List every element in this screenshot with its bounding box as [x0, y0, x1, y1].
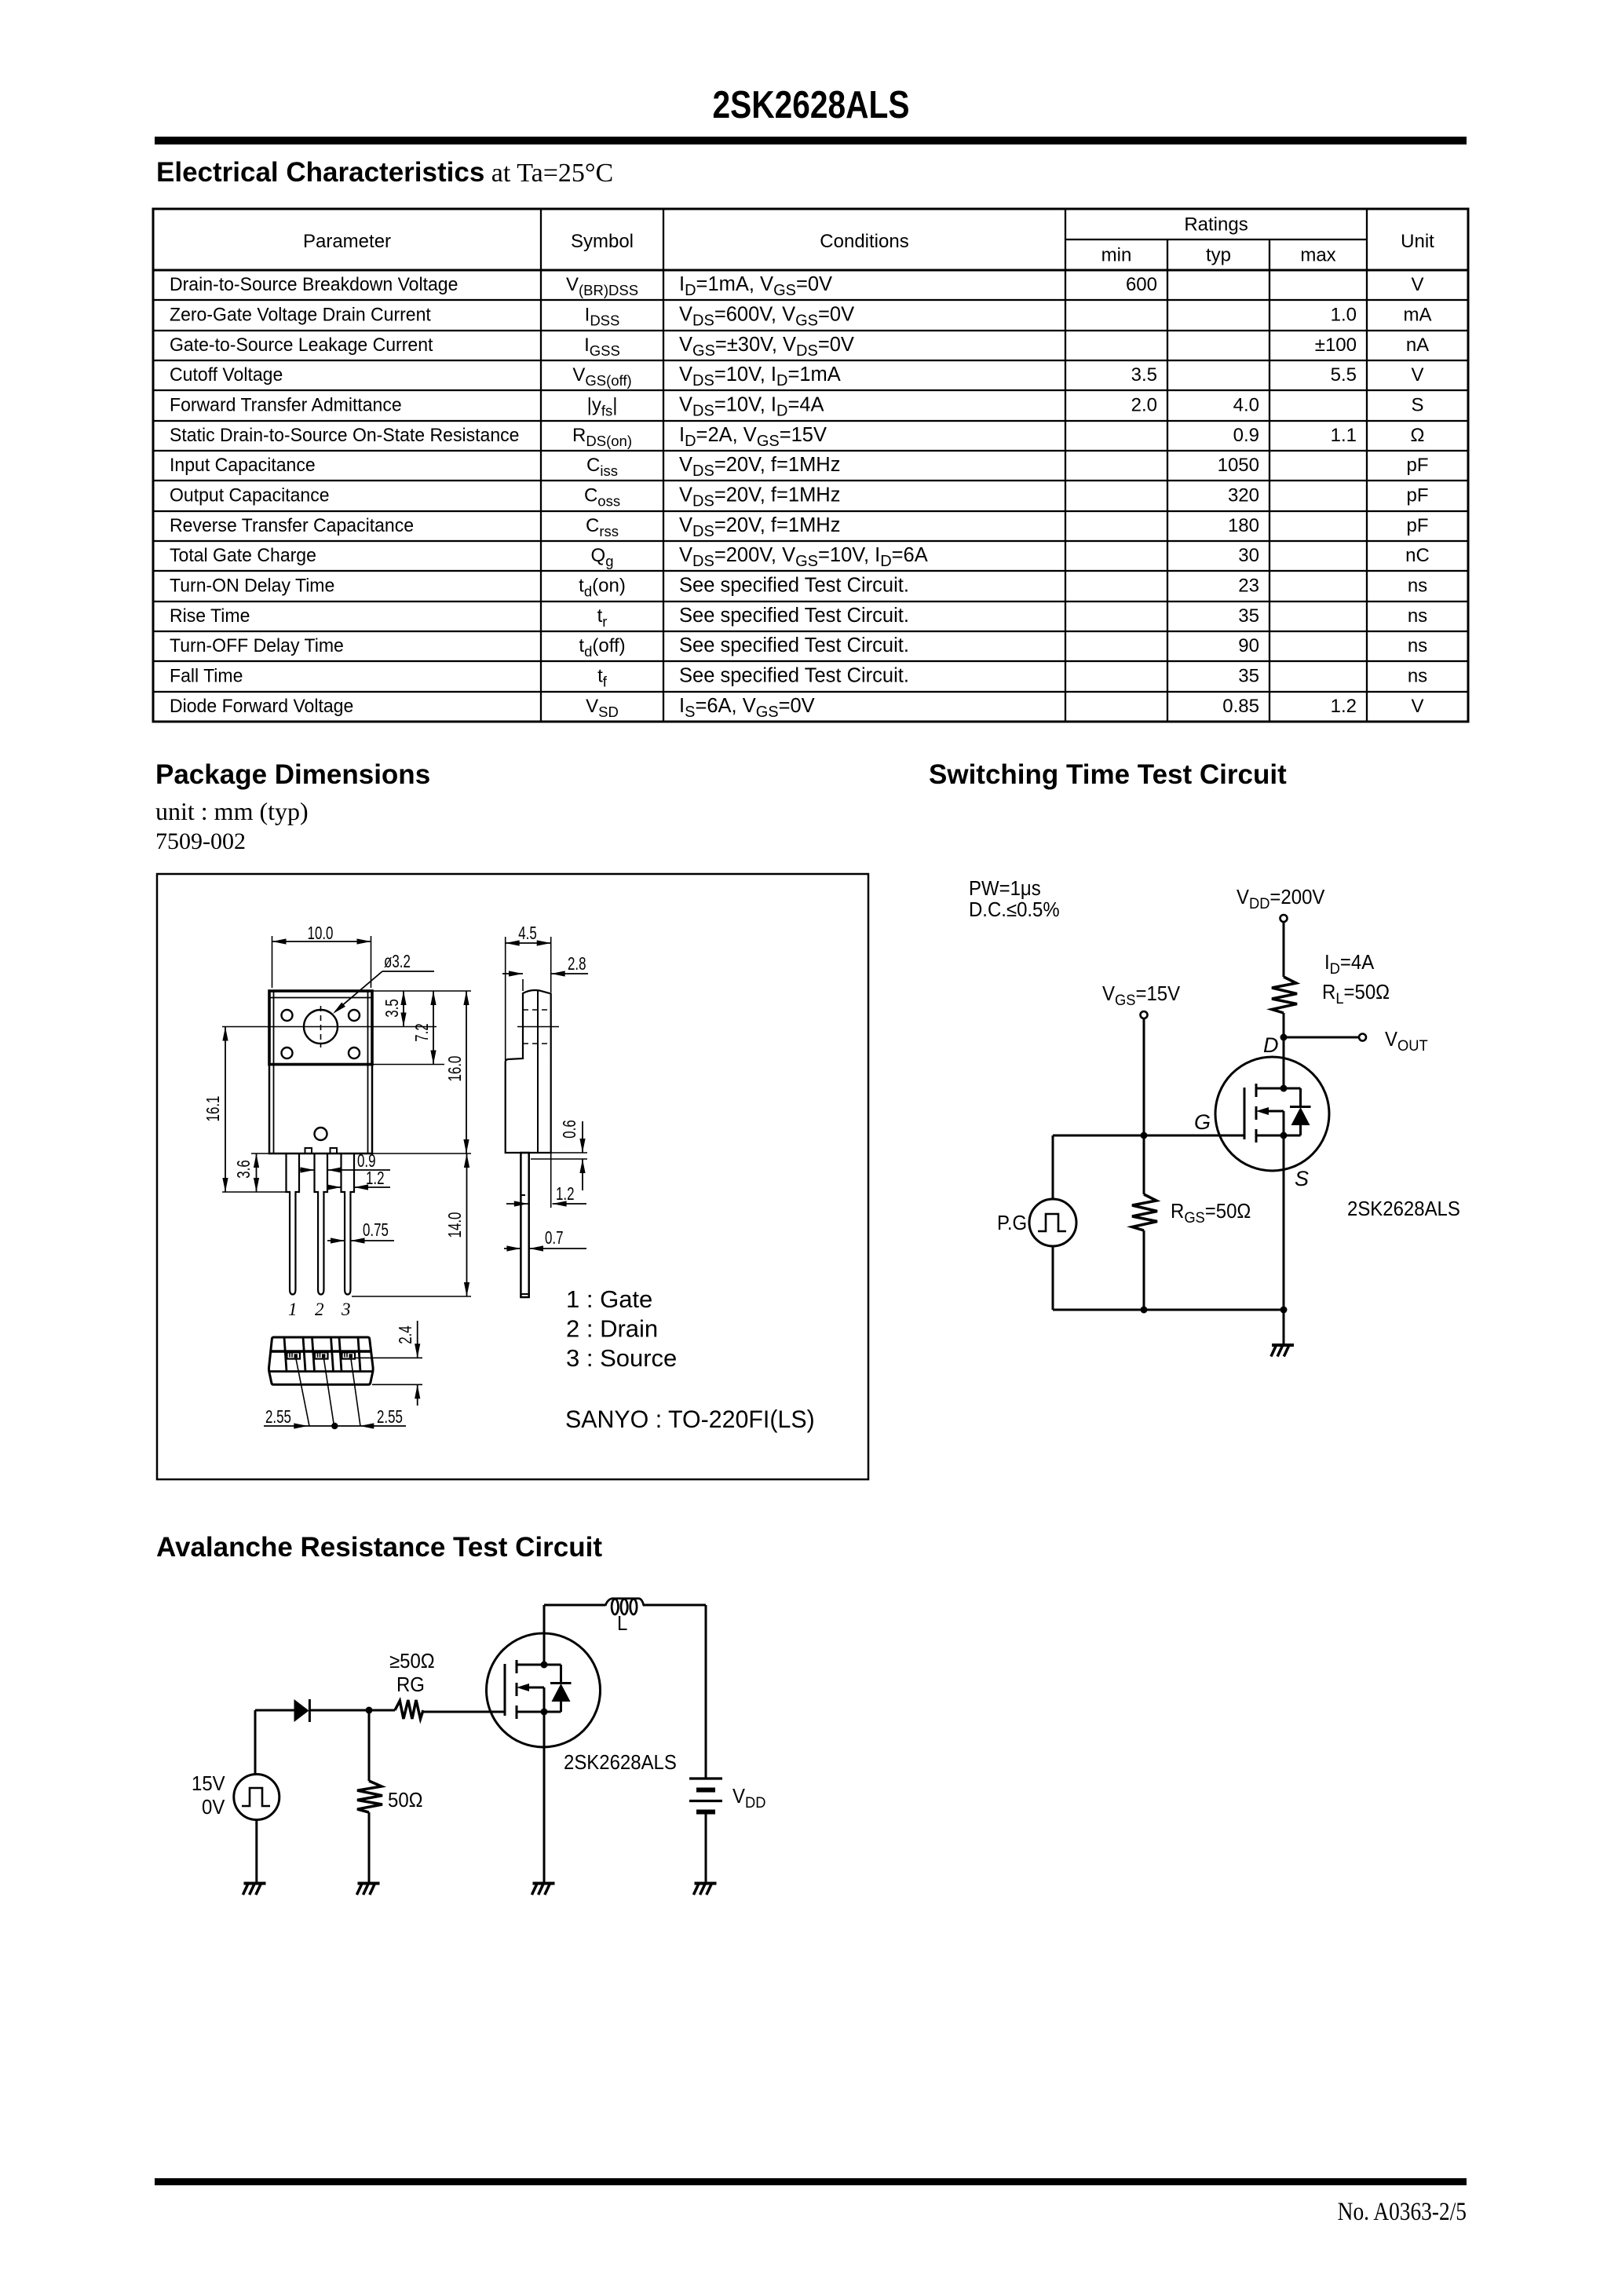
svg-text:ns: ns: [1408, 576, 1427, 597]
svg-text:td​(on): td​(on): [579, 576, 626, 600]
svg-text:2 : Drain: 2 : Drain: [566, 1315, 658, 1343]
svg-text:typ: typ: [1206, 245, 1231, 266]
svg-text:RL​=50Ω: RL​=50Ω: [1322, 982, 1390, 1007]
svg-text:Zero-Gate Voltage Drain Curren: Zero-Gate Voltage Drain Current: [170, 304, 431, 325]
svg-text:Total Gate Charge: Total Gate Charge: [170, 545, 316, 566]
svg-text:SANYO : TO-220FI(LS): SANYO : TO-220FI(LS): [565, 1406, 815, 1434]
svg-text:VDD​=200V: VDD​=200V: [1237, 887, 1325, 912]
svg-text:30: 30: [1238, 545, 1259, 566]
svg-text:min: min: [1101, 245, 1132, 266]
svg-text:V: V: [1411, 364, 1423, 386]
svg-text:PW=1μs: PW=1μs: [969, 878, 1041, 900]
svg-text:Diode Forward Voltage: Diode Forward Voltage: [170, 696, 353, 717]
svg-text:S: S: [1411, 395, 1423, 416]
svg-text:V: V: [1411, 696, 1423, 717]
svg-text:1.1: 1.1: [1331, 425, 1357, 446]
svg-text:2.4: 2.4: [395, 1325, 415, 1344]
svg-text:ns: ns: [1408, 635, 1427, 656]
svg-text:Static Drain-to-Source On-Stat: Static Drain-to-Source On-State Resistan…: [170, 425, 519, 446]
svg-text:0.75: 0.75: [363, 1219, 389, 1240]
svg-text:16.1: 16.1: [203, 1096, 223, 1122]
svg-text:Turn-ON Delay Time: Turn-ON Delay Time: [170, 575, 334, 596]
svg-text:1.2: 1.2: [556, 1183, 575, 1204]
svg-text:0V: 0V: [202, 1797, 225, 1819]
svg-text:Ω: Ω: [1411, 425, 1425, 446]
svg-text:VGS​=15V: VGS​=15V: [1102, 983, 1181, 1009]
svg-text:See specified Test Circuit.: See specified Test Circuit.: [679, 605, 909, 627]
svg-text:≥50Ω: ≥50Ω: [389, 1651, 435, 1673]
svg-text:ns: ns: [1408, 605, 1427, 627]
svg-text:Ratings: Ratings: [1184, 214, 1248, 236]
svg-text:±100: ±100: [1315, 335, 1357, 356]
svg-text:2.0: 2.0: [1131, 395, 1157, 416]
svg-text:ID​=1mA, VGS​=0V: ID​=1mA, VGS​=0V: [679, 273, 832, 299]
svg-text:mA: mA: [1404, 305, 1432, 326]
svg-text:3.5: 3.5: [1131, 364, 1157, 386]
svg-text:10.0: 10.0: [308, 923, 334, 943]
svg-text:15V: 15V: [192, 1773, 225, 1795]
svg-text:L: L: [617, 1613, 627, 1635]
svg-text:90: 90: [1238, 635, 1259, 656]
svg-text:VSD​: VSD​: [586, 696, 619, 720]
svg-text:3 : Source: 3 : Source: [566, 1344, 677, 1372]
svg-text:Reverse Transfer Capacitance: Reverse Transfer Capacitance: [170, 515, 414, 536]
svg-text:0.6: 0.6: [559, 1120, 579, 1139]
svg-text:IDSS​: IDSS​: [585, 305, 620, 329]
svg-text:nC: nC: [1405, 545, 1430, 566]
svg-text:See specified Test Circuit.: See specified Test Circuit.: [679, 634, 909, 656]
svg-text:VOUT​: VOUT​: [1385, 1029, 1428, 1055]
svg-text:180: 180: [1228, 515, 1259, 536]
svg-text:VDS​=20V, f=1MHz: VDS​=20V, f=1MHz: [679, 484, 840, 510]
svg-text:pF: pF: [1406, 515, 1428, 536]
svg-text:4.0: 4.0: [1233, 395, 1259, 416]
svg-text:ns: ns: [1408, 666, 1427, 687]
svg-text:2.8: 2.8: [568, 953, 586, 974]
svg-text:Rise Time: Rise Time: [170, 605, 250, 627]
svg-text:0.85: 0.85: [1222, 696, 1259, 717]
svg-text:V: V: [1411, 274, 1423, 295]
svg-text:P.G: P.G: [997, 1212, 1027, 1234]
svg-text:16.0: 16.0: [444, 1056, 465, 1082]
svg-text:2.55: 2.55: [265, 1406, 291, 1427]
svg-text:2SK2628ALS: 2SK2628ALS: [564, 1752, 677, 1774]
svg-text:Drain-to-Source Breakdown Volt: Drain-to-Source Breakdown Voltage: [170, 274, 458, 295]
svg-text:pF: pF: [1406, 485, 1428, 506]
svg-text:35: 35: [1238, 666, 1259, 687]
svg-text:320: 320: [1228, 485, 1259, 506]
svg-text:Fall Time: Fall Time: [170, 665, 243, 686]
svg-text:VDS​=20V, f=1MHz: VDS​=20V, f=1MHz: [679, 454, 840, 480]
svg-text:Conditions: Conditions: [820, 231, 908, 252]
svg-text:VGS(off)​: VGS(off)​: [572, 364, 631, 389]
svg-text:Crss​: Crss​: [586, 515, 619, 539]
svg-text:3: 3: [341, 1300, 351, 1319]
svg-text:14.0: 14.0: [444, 1212, 465, 1238]
svg-text:50Ω: 50Ω: [388, 1790, 423, 1812]
svg-text:3.5: 3.5: [382, 999, 402, 1018]
svg-text:max: max: [1300, 245, 1335, 266]
svg-text:VDS​=200V, VGS​=10V, ID​=6A: VDS​=200V, VGS​=10V, ID​=6A: [679, 544, 928, 570]
svg-text:Qg​: Qg​: [591, 545, 614, 569]
svg-text:Cutoff Voltage: Cutoff Voltage: [170, 364, 283, 386]
svg-text:|yfs​|: |yfs​|: [587, 395, 618, 419]
svg-text:3.6: 3.6: [233, 1160, 254, 1179]
svg-text:Unit: Unit: [1401, 231, 1434, 252]
svg-text:tr​: tr​: [597, 605, 608, 630]
svg-text:Forward Transfer Admittance: Forward Transfer Admittance: [170, 394, 402, 415]
svg-text:ID​=2A, VGS​=15V: ID​=2A, VGS​=15V: [679, 424, 827, 450]
svg-text:S: S: [1295, 1167, 1309, 1190]
svg-text:5.5: 5.5: [1331, 364, 1357, 386]
svg-text:RG: RG: [396, 1674, 425, 1696]
svg-text:tf​: tf​: [597, 666, 608, 690]
svg-text:23: 23: [1238, 576, 1259, 597]
svg-text:1: 1: [288, 1300, 298, 1319]
svg-text:35: 35: [1238, 605, 1259, 627]
svg-text:2: 2: [315, 1300, 324, 1319]
svg-text:VDS​=600V, VGS​=0V: VDS​=600V, VGS​=0V: [679, 304, 854, 330]
svg-text:RGS​=50Ω: RGS​=50Ω: [1171, 1201, 1251, 1227]
svg-text:VDS​=20V, f=1MHz: VDS​=20V, f=1MHz: [679, 514, 840, 540]
svg-text:Ciss​: Ciss​: [586, 455, 618, 479]
svg-text:G: G: [1194, 1110, 1211, 1134]
svg-text:Symbol: Symbol: [571, 231, 634, 252]
svg-text:See specified Test Circuit.: See specified Test Circuit.: [679, 665, 909, 687]
svg-text:VDS​=10V, ID​=4A: VDS​=10V, ID​=4A: [679, 394, 824, 420]
svg-text:VDS​=10V, ID​=1mA: VDS​=10V, ID​=1mA: [679, 364, 841, 389]
svg-text:Parameter: Parameter: [303, 231, 391, 252]
svg-text:td​(off): td​(off): [579, 635, 625, 660]
svg-text:Turn-OFF Delay Time: Turn-OFF Delay Time: [170, 635, 344, 656]
svg-text:0.7: 0.7: [545, 1227, 564, 1248]
svg-text:1.2: 1.2: [1331, 696, 1357, 717]
svg-text:7.2: 7.2: [411, 1023, 432, 1042]
svg-text:2.55: 2.55: [377, 1406, 403, 1427]
svg-text:1050: 1050: [1218, 455, 1259, 476]
svg-text:ID​=4A: ID​=4A: [1324, 952, 1375, 978]
svg-text:1.2: 1.2: [366, 1168, 385, 1188]
svg-text:D: D: [1263, 1033, 1279, 1057]
svg-text:2SK2628ALS: 2SK2628ALS: [1347, 1198, 1460, 1220]
svg-text:VGS​=±30V, VDS​=0V: VGS​=±30V, VDS​=0V: [679, 334, 854, 360]
svg-text:Input Capacitance: Input Capacitance: [170, 455, 316, 476]
svg-text:IGSS​: IGSS​: [584, 335, 620, 359]
svg-text:0.9: 0.9: [1233, 425, 1259, 446]
svg-text:V(BR)DSS​: V(BR)DSS​: [566, 274, 638, 298]
svg-text:nA: nA: [1406, 335, 1429, 356]
svg-text:pF: pF: [1406, 455, 1428, 476]
svg-text:Coss​: Coss​: [584, 485, 620, 510]
svg-text:RDS(on)​: RDS(on)​: [572, 425, 632, 449]
svg-text:600: 600: [1126, 274, 1157, 295]
svg-text:1.0: 1.0: [1331, 305, 1357, 326]
svg-text:4.5: 4.5: [518, 923, 537, 943]
svg-text:Output Capacitance: Output Capacitance: [170, 484, 330, 506]
svg-text:See specified Test Circuit.: See specified Test Circuit.: [679, 575, 909, 597]
svg-text:1 : Gate: 1 : Gate: [566, 1285, 652, 1313]
svg-text:ø3.2: ø3.2: [384, 951, 411, 971]
svg-text:Gate-to-Source Leakage Current: Gate-to-Source Leakage Current: [170, 335, 433, 356]
svg-text:IS​=6A, VGS​=0V: IS​=6A, VGS​=0V: [679, 695, 815, 721]
svg-text:D.C.≤0.5%: D.C.≤0.5%: [969, 899, 1060, 921]
svg-text:VDD​: VDD​: [732, 1786, 765, 1812]
